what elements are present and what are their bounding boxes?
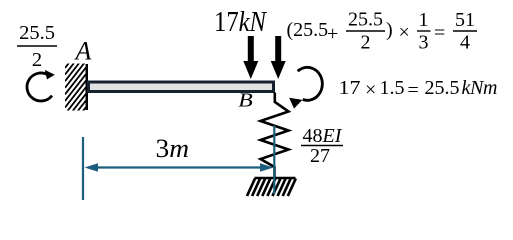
svg-text:25.5: 25.5	[425, 77, 460, 99]
svg-text:27: 27	[310, 145, 330, 167]
svg-text:×: ×	[399, 22, 410, 44]
svg-text:kNm: kNm	[462, 77, 498, 99]
svg-text:17: 17	[339, 77, 361, 99]
svg-text:×: ×	[365, 79, 376, 101]
svg-text:1.5: 1.5	[380, 77, 405, 99]
svg-text:2: 2	[361, 32, 371, 54]
svg-text:48EI: 48EI	[303, 125, 343, 147]
svg-text:17kN: 17kN	[214, 7, 267, 38]
svg-text:B: B	[238, 90, 253, 112]
svg-text:4: 4	[460, 32, 470, 54]
svg-text:3: 3	[419, 32, 429, 54]
svg-text:2: 2	[32, 49, 42, 71]
svg-text:51: 51	[455, 9, 475, 31]
svg-text:25.5: 25.5	[348, 9, 383, 31]
svg-text:): )	[386, 19, 393, 41]
svg-text:25.5: 25.5	[19, 22, 55, 44]
svg-text:A: A	[74, 37, 92, 66]
svg-text:=: =	[434, 22, 445, 44]
svg-text:1: 1	[419, 9, 429, 31]
svg-text:+: +	[327, 23, 338, 45]
svg-text:(25.5: (25.5	[287, 19, 329, 41]
svg-text:3m: 3m	[156, 133, 190, 163]
svg-text:=: =	[408, 80, 419, 102]
